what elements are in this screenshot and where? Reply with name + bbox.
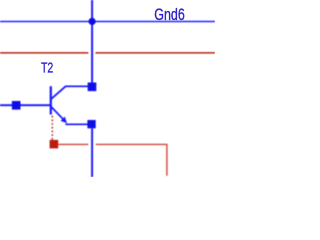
svg-text:T2: T2 [41, 59, 53, 76]
wire Gnd6 net horizontal top [0, 21, 215, 23]
pin square emitter of T2 [87, 120, 95, 128]
dotted connector from T2 to red pin [51, 116, 53, 140]
pin square base of T2 [12, 101, 21, 110]
transistor T2 emitter arrowhead [61, 117, 67, 124]
wire red net horizontal upper left segment [0, 52, 88, 54]
svg-text:Gnd6: Gnd6 [154, 6, 185, 24]
wire base lead [0, 104, 51, 106]
transistor T2 collector diagonal [51, 86, 66, 99]
wire emitter horizontal [65, 123, 87, 125]
wire red net horizontal upper right segment [96, 52, 216, 54]
pin square collector of T2 [88, 83, 97, 92]
wire red net bottom right segment with corner [96, 144, 167, 175]
pin square red net [50, 140, 59, 149]
junction dot on Gnd6 net [89, 18, 96, 25]
wire red net bottom left segment [58, 143, 88, 145]
wire vertical from Gnd6 net to collector pin [91, 0, 93, 83]
transistor T2 emitter diagonal [51, 106, 65, 120]
wire collector horizontal [65, 85, 88, 87]
wire vertical from emitter pin to bottom edge [91, 128, 93, 177]
transistor Q T2 base bar [50, 86, 52, 114]
